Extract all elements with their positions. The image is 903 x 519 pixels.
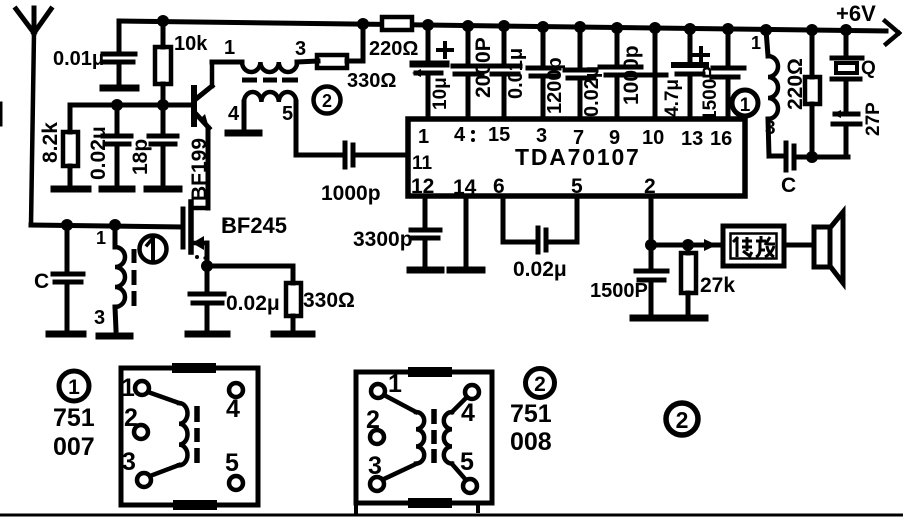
svg-text:2: 2 bbox=[366, 406, 380, 434]
node rail/330 bbox=[357, 18, 369, 30]
resistor R 10k bbox=[155, 21, 208, 105]
transistor Q1 BF199 bbox=[188, 62, 212, 201]
capacitor 1200p (pin 3) bbox=[528, 27, 566, 119]
svg-text:3: 3 bbox=[122, 448, 136, 476]
node base/10k bbox=[157, 99, 169, 111]
svg-text:10k: 10k bbox=[174, 33, 208, 55]
svg-text:4: 4 bbox=[461, 399, 475, 427]
inductor L2 input coil (pins 1-3) bbox=[94, 225, 125, 330]
svg-text:13: 13 bbox=[681, 128, 703, 150]
node rail/pin3 bbox=[537, 21, 549, 33]
speaker bbox=[784, 212, 843, 283]
svg-text:1: 1 bbox=[751, 33, 761, 53]
ground (27k) bbox=[671, 315, 705, 322]
transformer detail 1 pin labels bbox=[121, 374, 240, 477]
svg-text:15: 15 bbox=[488, 124, 510, 146]
wire Q1 emitter to Q2 drain bbox=[206, 128, 211, 208]
node rail/pin7 bbox=[574, 21, 586, 33]
wire base bus bbox=[70, 103, 193, 108]
svg-text:27k: 27k bbox=[700, 274, 735, 297]
svg-text:C: C bbox=[781, 174, 796, 197]
svg-text:10μ: 10μ bbox=[430, 77, 451, 110]
capacitor C (input tank) bbox=[34, 225, 83, 330]
wire T2 pin5 to coupling cap bbox=[296, 153, 341, 158]
capacitor 18p bbox=[129, 105, 177, 185]
ground (18p) bbox=[147, 186, 179, 193]
node rail/pin16 bbox=[722, 23, 734, 35]
transistor Q2 BF245 bbox=[183, 202, 287, 266]
svg-text:1500P: 1500P bbox=[590, 280, 648, 302]
svg-text:5: 5 bbox=[225, 449, 239, 477]
svg-text:3: 3 bbox=[94, 307, 105, 329]
antenna bbox=[16, 8, 51, 33]
node rail/pin4 bbox=[462, 20, 474, 32]
svg-text:3300p: 3300p bbox=[353, 228, 413, 251]
svg-text:3: 3 bbox=[536, 125, 547, 147]
svg-text:2: 2 bbox=[534, 373, 546, 396]
capacitor 10u electrolytic (pin 1) bbox=[412, 25, 452, 119]
svg-text:18p: 18p bbox=[129, 139, 152, 175]
transformer detail 1 pins 4-5 bbox=[229, 383, 243, 490]
svg-text:2: 2 bbox=[124, 404, 138, 432]
svg-text:3: 3 bbox=[295, 38, 306, 60]
svg-text:4: 4 bbox=[228, 103, 240, 125]
label circled 1 (input coil ref) bbox=[140, 236, 167, 263]
wire +6V supply rail bbox=[119, 21, 886, 31]
svg-text:0.02μ: 0.02μ bbox=[226, 292, 280, 315]
svg-text:1500P: 1500P bbox=[700, 66, 721, 121]
inductor L1 oscillator coil (pins 1-3) bbox=[751, 30, 778, 156]
node rail/220 bbox=[806, 24, 818, 36]
svg-text:27P: 27P bbox=[863, 102, 884, 136]
op-amp U1 TDA70107 bbox=[408, 119, 745, 199]
svg-text:5: 5 bbox=[282, 103, 293, 125]
svg-text:9: 9 bbox=[609, 127, 620, 149]
page bottom border bbox=[0, 514, 903, 517]
svg-text:1000p: 1000p bbox=[620, 45, 643, 105]
ground (0.01u) bbox=[103, 85, 136, 92]
svg-text:1200p: 1200p bbox=[544, 57, 566, 114]
transformer detail 2 pin labels bbox=[366, 370, 475, 480]
resistor R 8.2k bbox=[39, 105, 78, 185]
node rail/pin10 bbox=[649, 22, 661, 34]
capacitor 27P bbox=[832, 81, 884, 157]
svg-text:0.02μ: 0.02μ bbox=[87, 126, 110, 180]
capacitor 0.02u (pins 6-5) bbox=[503, 196, 577, 281]
label circled 2 (T2) bbox=[314, 87, 341, 114]
label 751 008 bbox=[510, 400, 552, 456]
capacitor 2000P (pin 4) bbox=[453, 26, 495, 119]
transformer detail 2 core bbox=[431, 409, 437, 463]
capacitor 0.01u (pin 15) bbox=[489, 26, 527, 119]
svg-text:0.01μ: 0.01μ bbox=[53, 48, 104, 70]
ground (8.2k) bbox=[54, 186, 88, 193]
svg-text:Q: Q bbox=[861, 58, 876, 79]
svg-text:1: 1 bbox=[224, 37, 235, 59]
capacitor 0.02u (base) bbox=[87, 105, 131, 185]
capacitor 1500P (pin 2) bbox=[590, 245, 667, 314]
svg-text:10: 10 bbox=[642, 127, 664, 149]
inductor L2 core bbox=[132, 249, 137, 306]
svg-text:1: 1 bbox=[388, 370, 402, 398]
svg-text:16: 16 bbox=[710, 128, 732, 150]
svg-text:3: 3 bbox=[765, 118, 776, 139]
scan artifact left edge bbox=[0, 103, 3, 125]
ground (source C) bbox=[188, 331, 227, 338]
node rail/pin9 bbox=[611, 22, 623, 34]
capacitor 0.01u (antenna decouple) bbox=[53, 21, 135, 84]
label circled 1 (transformer detail 1) bbox=[59, 371, 89, 401]
node bus/L2 bbox=[109, 219, 121, 231]
capacitor 3300p (pin 12) bbox=[353, 196, 440, 266]
svg-text:220Ω: 220Ω bbox=[784, 58, 807, 110]
svg-text:751: 751 bbox=[53, 404, 95, 432]
capacitor 1000p (pin 9) bbox=[600, 28, 666, 119]
node bus/C bbox=[61, 219, 73, 231]
resonator Q bbox=[832, 30, 876, 79]
ground (3300p) bbox=[410, 267, 441, 274]
transformer detail 2 secondary winding bbox=[444, 385, 479, 493]
svg-text:1: 1 bbox=[740, 95, 751, 116]
scan specks bbox=[195, 221, 228, 260]
svg-text:2: 2 bbox=[322, 91, 332, 111]
node pin2/1500P bbox=[645, 239, 657, 251]
svg-text:C: C bbox=[34, 270, 49, 293]
svg-text:330Ω: 330Ω bbox=[303, 289, 355, 312]
svg-text:1: 1 bbox=[96, 228, 106, 248]
label circled 2 (standalone) bbox=[666, 403, 698, 435]
wire FET input bus bbox=[31, 225, 181, 227]
svg-text:4: 4 bbox=[454, 124, 466, 146]
amplifier block bbox=[723, 226, 784, 266]
transformer detail 1 box bbox=[121, 368, 258, 505]
svg-text:0.02μ: 0.02μ bbox=[581, 66, 603, 117]
node rail/pin1 bbox=[422, 19, 434, 31]
ground (pin 14) bbox=[450, 267, 482, 274]
connector arrow +6V bbox=[885, 21, 899, 44]
svg-text:1: 1 bbox=[121, 374, 135, 402]
capacitor 4.7u electrolytic (pin 13) bbox=[662, 29, 708, 119]
svg-text:4.7μ: 4.7μ bbox=[662, 79, 683, 117]
ground (1500P) bbox=[633, 315, 669, 322]
node pin2/27k bbox=[682, 239, 694, 251]
label 751 007 bbox=[53, 404, 95, 461]
node rail/resonator bbox=[840, 24, 852, 36]
wire pin 10 to rail bbox=[653, 28, 658, 119]
resistor 330 ohm (T2 to rail) bbox=[317, 24, 396, 92]
transformer T2 secondary (pins 4-5) bbox=[228, 92, 296, 155]
capacitor 0.02u (source) bbox=[190, 266, 280, 330]
capacitor 1000p (coupling to pin 11) bbox=[321, 143, 408, 205]
ground (T2 pin 4) bbox=[228, 130, 259, 137]
ground (input C) bbox=[49, 331, 83, 338]
capacitor C (osc tank) bbox=[769, 143, 848, 197]
resistor 220 ohm (rail series) bbox=[369, 17, 418, 60]
svg-text:008: 008 bbox=[510, 428, 552, 456]
node tank/220 bbox=[806, 151, 818, 163]
transformer detail 2 primary winding bbox=[370, 384, 424, 491]
svg-text:220Ω: 220Ω bbox=[369, 38, 418, 60]
transformer detail 1 winding bbox=[134, 381, 188, 487]
svg-text:1000p: 1000p bbox=[321, 182, 381, 205]
wire antenna down-lead bbox=[31, 33, 34, 225]
node rail/pin15 bbox=[498, 20, 510, 32]
node base/0.02u bbox=[111, 99, 123, 111]
node rail/10k bbox=[157, 15, 169, 27]
svg-text:BF245: BF245 bbox=[221, 213, 287, 238]
svg-text:3: 3 bbox=[368, 452, 382, 480]
svg-text:5: 5 bbox=[460, 448, 474, 476]
svg-text:1: 1 bbox=[68, 376, 80, 399]
svg-text:0.01μ: 0.01μ bbox=[505, 48, 527, 99]
capacitor 1500P (pin 16) bbox=[700, 29, 744, 121]
resistor 330 ohm (source) bbox=[286, 283, 355, 330]
svg-text:330Ω: 330Ω bbox=[347, 70, 396, 92]
node rail/osc coil bbox=[760, 24, 772, 36]
ground (L2) bbox=[99, 333, 130, 340]
resistor 27k bbox=[681, 245, 735, 314]
svg-text:1: 1 bbox=[418, 126, 429, 148]
resistor 220 ohm (osc) bbox=[784, 30, 820, 157]
svg-text:751: 751 bbox=[510, 400, 552, 428]
svg-text:+6V: +6V bbox=[836, 1, 876, 26]
node rail/pin13 bbox=[684, 23, 696, 35]
wire pin 2 to audio bbox=[651, 196, 723, 245]
wire source to 330 bbox=[207, 266, 293, 283]
transformer T2 primary (pins 1-3) bbox=[212, 37, 318, 72]
svg-text:0.02μ: 0.02μ bbox=[513, 258, 567, 281]
transformer T2 core bbox=[242, 78, 298, 83]
svg-text:7: 7 bbox=[573, 127, 584, 149]
label circled 2 (transformer detail 2) bbox=[526, 369, 555, 398]
svg-text:007: 007 bbox=[53, 433, 95, 461]
transformer detail 1 core bbox=[194, 406, 200, 463]
svg-text:11: 11 bbox=[412, 153, 433, 174]
transformer detail 2 box bbox=[356, 372, 492, 513]
svg-text:2: 2 bbox=[676, 407, 689, 433]
capacitor 0.02u (pin 7) bbox=[565, 27, 603, 119]
svg-text:4: 4 bbox=[226, 395, 240, 423]
node Q2 source bbox=[201, 260, 213, 272]
svg-text:8.2k: 8.2k bbox=[39, 122, 62, 163]
wire pin 14 to ground bbox=[464, 196, 469, 266]
label circled 1 (osc coil ref) bbox=[732, 90, 758, 116]
arrow into amp bbox=[704, 239, 717, 251]
ground (330 source) bbox=[274, 331, 312, 338]
ground (0.02u base) bbox=[102, 186, 132, 193]
